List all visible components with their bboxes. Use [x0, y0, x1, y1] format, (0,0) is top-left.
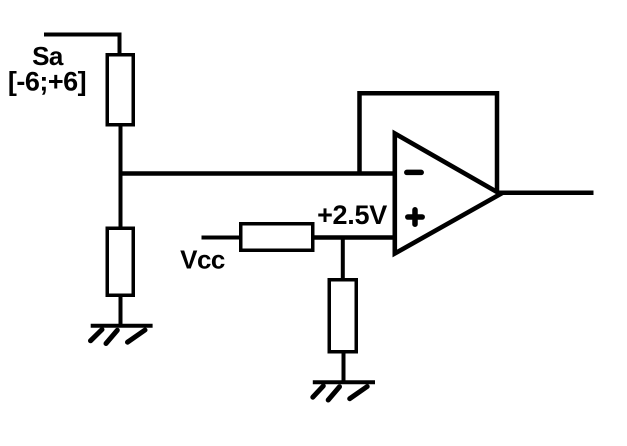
- wire: R1 bottom to R2 top (vertical through inverting node): [119, 127, 123, 228]
- resistor R4 (lower right vertical): [329, 280, 356, 352]
- resistor R2 (lower left vertical): [107, 228, 133, 295]
- wire: inverting input (node to op-amp): [119, 171, 396, 176]
- op-amp U1 inverting pin marker (-): [407, 170, 421, 176]
- svg-text:+2.5V: +2.5V: [317, 200, 387, 230]
- ground G1: [91, 326, 153, 344]
- op-amp U1 non-inverting pin marker (+): [408, 210, 422, 224]
- wire: Vcc input to R3: [202, 236, 241, 240]
- svg-text:Vcc: Vcc: [180, 245, 225, 275]
- resistor R3 (horizontal): [241, 224, 313, 251]
- wire: output: [498, 191, 594, 196]
- op-amp U1 (triangle): [395, 134, 501, 254]
- wire: source input (top horizontal into R1): [44, 35, 120, 54]
- resistor R1 (top left vertical): [107, 55, 133, 125]
- label [-6;+6]: [8, 67, 86, 97]
- label Vcc: [180, 245, 225, 275]
- wire: R3 to op-amp non-inverting input: [315, 235, 397, 240]
- wire: feedback loop (inverting node up, over, down to output): [360, 93, 498, 193]
- label +2.5V: [317, 200, 387, 230]
- label Sa: [32, 41, 64, 71]
- wire: node to R4 (vertical): [341, 238, 345, 280]
- wire: R2 bottom to ground: [119, 295, 123, 325]
- svg-text:[-6;+6]: [-6;+6]: [8, 67, 86, 97]
- ground G2: [313, 382, 375, 400]
- wire: R4 bottom to ground: [342, 352, 346, 382]
